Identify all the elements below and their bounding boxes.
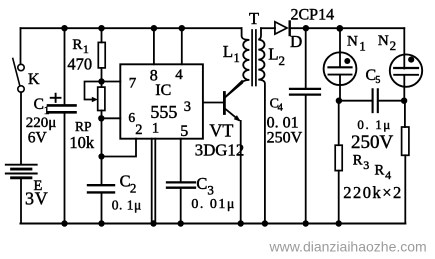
neon lamp N1 lead: [339, 28, 341, 67]
junction bottom rail / R3: [336, 220, 342, 226]
resistor R4 body: [402, 127, 409, 155]
junction bottom rail / C4: [303, 220, 309, 226]
wire pin1 doubled: [151, 139, 153, 222]
neon lamp N2 lead: [403, 28, 405, 68]
junction bottom rail / C3: [178, 220, 184, 226]
junction bottom rail / emitter: [238, 220, 244, 226]
IC 555 box: [120, 64, 203, 138]
svg-text:N: N: [378, 33, 389, 49]
battery E plate short1: [12, 168, 31, 171]
svg-text:470: 470: [67, 55, 92, 74]
capacitor C3 bottom lead: [180, 189, 182, 224]
svg-text:R: R: [72, 37, 82, 53]
resistor R4 leads: [404, 101, 406, 127]
capacitor C3 top lead (pin5): [180, 139, 182, 182]
svg-text:3: 3: [184, 99, 191, 115]
junction top rail / C4: [303, 25, 309, 31]
svg-text:555: 555: [150, 102, 177, 122]
resistor R3 body: [335, 145, 342, 170]
svg-text:L: L: [223, 42, 233, 61]
capacitor C1 plates: [48, 104, 76, 107]
junction bottom rail / C1: [61, 220, 67, 226]
svg-text:1: 1: [234, 51, 240, 65]
transformer primary L1: [225, 28, 249, 97]
svg-text:3: 3: [363, 158, 369, 172]
svg-text:R: R: [375, 163, 385, 179]
capacitor C1 top lead: [64, 28, 66, 104]
junction top rail / N1: [336, 25, 343, 32]
junction top rail / pin 8: [151, 25, 157, 31]
wire pin3: [203, 102, 223, 104]
svg-text:0. 01μ: 0. 01μ: [191, 197, 236, 212]
svg-text:D: D: [290, 32, 302, 51]
svg-text:10k: 10k: [69, 133, 95, 152]
battery E plate long1: [6, 164, 37, 166]
svg-text:3V: 3V: [25, 189, 49, 209]
svg-text:1: 1: [359, 39, 366, 54]
svg-text:4: 4: [278, 103, 284, 114]
junction bottom rail / C2: [98, 220, 104, 226]
potentiometer RP body: [98, 87, 105, 110]
svg-text:7: 7: [129, 76, 137, 92]
wire bottom rail: [21, 223, 406, 225]
svg-text:N: N: [347, 33, 358, 49]
svg-text:3DG12: 3DG12: [195, 141, 244, 160]
svg-text:4: 4: [385, 168, 391, 182]
svg-text:0. 1μ: 0. 1μ: [357, 117, 391, 132]
transistor emitter: [225, 109, 238, 120]
svg-text:C: C: [196, 174, 207, 193]
transformer secondary L2: [258, 28, 265, 223]
svg-text:IC: IC: [155, 82, 171, 99]
neon lamp N1 envelope: [324, 52, 357, 85]
capacitor C4 plates: [290, 88, 320, 90]
neon lamp N2 envelope: [390, 54, 422, 86]
svg-text:6V: 6V: [28, 130, 48, 147]
wire emitter to bottom rail: [240, 121, 242, 224]
wire pin2 path: [102, 139, 137, 157]
transistor VT base bar: [223, 93, 226, 114]
svg-text:2: 2: [130, 181, 137, 196]
capacitor C2 top lead: [101, 157, 103, 184]
capacitor C5 plates: [372, 89, 374, 112]
svg-text:2: 2: [390, 38, 397, 53]
diode D triangle: [275, 22, 287, 34]
capacitor C4 top lead: [305, 28, 307, 88]
svg-text:220k×2: 220k×2: [343, 183, 403, 202]
svg-text:C: C: [34, 96, 44, 113]
wire top rail left segment: [21, 27, 242, 29]
neon lamp N1 bottom stub: [339, 76, 341, 101]
junction bottom rail / L2: [262, 220, 268, 226]
potentiometer RP wiper loop: [85, 82, 102, 100]
capacitor C5 right lead: [379, 100, 404, 102]
svg-text:5: 5: [180, 123, 188, 140]
wire top rail diode anode segment: [261, 27, 275, 29]
resistor R1 body: [98, 42, 105, 68]
junction C5 right / N2-R4: [401, 98, 407, 104]
svg-text:RP: RP: [75, 119, 92, 134]
capacitor C2 bottom lead: [101, 194, 103, 224]
resistor R3 leads: [338, 101, 340, 146]
svg-text:L: L: [268, 45, 278, 64]
neon lamp N2 bottom stub: [403, 76, 405, 101]
wire switch to battery: [20, 92, 22, 164]
svg-text:2CP14: 2CP14: [291, 6, 335, 23]
capacitor C2 plates: [88, 184, 114, 186]
svg-text:1: 1: [152, 121, 159, 137]
battery E plate long2: [6, 173, 37, 175]
battery E plate short2: [12, 176, 31, 179]
svg-text:3: 3: [207, 182, 214, 197]
wire pin8 stub: [153, 28, 155, 64]
transistor collector: [225, 81, 242, 97]
switch K: [18, 64, 24, 70]
C1 polarity plus: [51, 97, 61, 99]
svg-text:4: 4: [175, 67, 183, 83]
neon lamp N1 electrodes: [329, 66, 352, 68]
svg-text:T: T: [249, 9, 259, 28]
resistor R1 leads: [101, 28, 103, 42]
wire top rail right segment: [290, 27, 404, 29]
wire RP to C2 node: [101, 111, 103, 157]
capacitor C5 left lead: [339, 100, 372, 102]
svg-text:K: K: [28, 71, 40, 88]
capacitor C4 bottom lead: [305, 96, 307, 224]
junction top rail / pin 4: [179, 25, 185, 31]
wire pin6: [102, 117, 121, 119]
junction C5 left / N1-R3: [336, 98, 342, 104]
junction bottom rail / pin 1: [150, 220, 156, 226]
svg-text:2: 2: [279, 53, 286, 68]
junction top rail / C1: [61, 25, 67, 31]
svg-text:2: 2: [135, 122, 142, 138]
svg-text:250V: 250V: [267, 130, 303, 147]
junction R1-RP-pin7: [98, 78, 104, 84]
svg-text:R: R: [353, 153, 363, 169]
svg-text:0. 1μ: 0. 1μ: [112, 197, 142, 212]
svg-text:www.dianziaihaozhe.com: www.dianziaihaozhe.com: [269, 239, 427, 255]
svg-text:VT: VT: [209, 121, 233, 141]
wire battery to bottom rail: [20, 179, 22, 224]
svg-text:250V: 250V: [351, 132, 394, 153]
wire left vertical rail-to-switch: [20, 28, 22, 64]
junction pin2-C2: [98, 153, 104, 159]
wire pin7: [102, 81, 121, 83]
neon lamp N2 electrodes: [394, 67, 418, 69]
junction top rail / R1: [98, 25, 104, 31]
transformer core: [251, 30, 253, 86]
capacitor C3 plates: [167, 181, 195, 183]
capacitor C1 bottom lead: [64, 114, 66, 224]
diode D cathode bar: [289, 22, 291, 36]
junction RP-pin6: [98, 115, 104, 121]
svg-text:5: 5: [375, 75, 380, 86]
wire pin4 stub: [181, 28, 183, 64]
